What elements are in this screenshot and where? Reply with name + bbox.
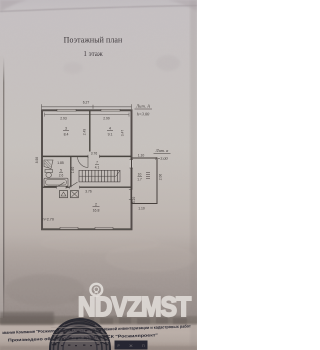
svg-text:1.60: 1.60	[71, 167, 75, 174]
right edge shadow band	[190, 0, 197, 350]
door opening ticks	[57, 186, 80, 189]
paper background	[0, 0, 197, 350]
svg-text:7: 7	[96, 161, 98, 165]
door leaf marks	[58, 182, 78, 187]
watermark circle icon above D	[90, 284, 102, 296]
window in right wall of bottom room	[129, 190, 132, 200]
appliance box 1 (furnace)	[60, 191, 68, 198]
svg-text:5: 5	[60, 169, 62, 173]
svg-text:8.4: 8.4	[64, 132, 69, 136]
top corner vignettes	[0, 0, 28, 12]
left page edge shadow line	[3, 56, 4, 318]
dim line top	[42, 104, 132, 109]
svg-text:h=2.70: h=2.70	[43, 218, 54, 222]
svg-text:1.10: 1.10	[138, 154, 145, 158]
svg-text:2.6: 2.6	[59, 173, 64, 177]
partition between room 3 and room 4	[89, 110, 91, 151]
svg-text:Лит. а: Лит. а	[155, 148, 170, 153]
svg-text:2.49: 2.49	[83, 129, 87, 136]
staircase	[79, 170, 120, 182]
svg-text:Поэтажный план: Поэтажный план	[64, 35, 123, 44]
bathroom partition (right wall of bath)	[70, 156, 72, 187]
window gaps in bottom wall	[60, 227, 78, 229]
svg-text:3.76: 3.76	[85, 190, 92, 194]
door swing arc in hall	[78, 156, 89, 167]
svg-text:3.10: 3.10	[132, 197, 136, 204]
interior dim line under top wall	[45, 113, 130, 117]
svg-text:8.98: 8.98	[35, 157, 39, 164]
bottom-left dark shadow patch	[0, 312, 54, 325]
dark stamp box bottom right	[115, 341, 148, 350]
stamp speckle	[54, 329, 106, 346]
bottom edge darkening	[0, 346, 197, 350]
svg-text:4.1: 4.1	[95, 165, 100, 169]
watermark letters	[78, 292, 192, 322]
light paper rows crossing the stamp	[50, 328, 110, 342]
wall under middle band	[42, 186, 132, 188]
svg-text:1.10: 1.10	[138, 207, 145, 211]
svg-text:2.93: 2.93	[60, 117, 67, 121]
svg-text:3.47: 3.47	[121, 130, 125, 137]
circular stamp	[50, 319, 110, 350]
svg-text:Лит. А: Лит. А	[135, 104, 150, 109]
svg-text:6.27: 6.27	[83, 101, 90, 105]
svg-text:9.1: 9.1	[108, 132, 113, 136]
svg-text:2: 2	[95, 203, 97, 207]
sink (corner, hatched)	[44, 160, 53, 169]
svg-text:2.06: 2.06	[159, 174, 163, 181]
window gaps in top wall	[57, 109, 76, 111]
mottled scan texture in dark zone	[105, 244, 195, 272]
svg-text:3.76: 3.76	[91, 152, 98, 156]
svg-text:1.85: 1.85	[57, 161, 64, 165]
paper grain	[0, 0, 197, 350]
svg-text:1 этаж: 1 этаж	[83, 50, 103, 58]
toilet	[45, 170, 53, 173]
exterior walls of Лит.А	[42, 110, 132, 229]
svg-text:3: 3	[65, 127, 67, 131]
svg-text:10: 10	[138, 173, 142, 177]
annex (Лит. a) outline	[132, 158, 158, 204]
dark shadow band under watermark	[0, 316, 197, 325]
top fold crease	[0, 6, 197, 12]
svg-text:2.99: 2.99	[103, 117, 110, 121]
faint bleed-through smudges	[156, 55, 180, 71]
door opening marks in that wall	[88, 155, 100, 158]
wall between top rooms and middle band	[42, 155, 132, 157]
appliance box 2 (boiler)	[71, 191, 79, 198]
svg-text:4: 4	[109, 127, 111, 131]
svg-text:16.8: 16.8	[93, 208, 100, 212]
door from hall to annex in right wall	[130, 160, 134, 169]
svg-text:h=3.00: h=3.00	[137, 112, 150, 117]
annex porch step marks	[146, 173, 150, 179]
svg-text:1.7: 1.7	[137, 178, 142, 182]
bathtub	[44, 178, 68, 186]
